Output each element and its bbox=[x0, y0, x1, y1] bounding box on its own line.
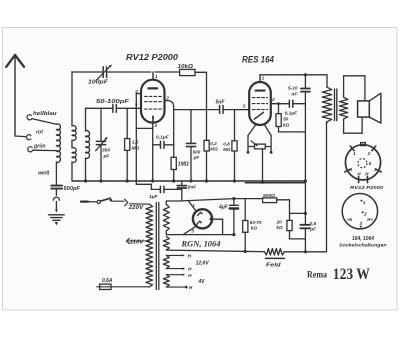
svg-text:kΩ: kΩ bbox=[276, 225, 283, 230]
svg-text:1,5: 1,5 bbox=[132, 140, 139, 146]
svg-text:weiß: weiß bbox=[38, 171, 50, 177]
svg-text:500pF: 500pF bbox=[64, 186, 81, 192]
svg-text:1: 1 bbox=[155, 74, 158, 79]
svg-text:5: 5 bbox=[369, 161, 372, 166]
svg-text:0,1μF: 0,1μF bbox=[285, 110, 299, 116]
svg-text:5-10: 5-10 bbox=[288, 85, 298, 91]
svg-text:3: 3 bbox=[360, 221, 363, 226]
svg-text:MΩ: MΩ bbox=[223, 147, 231, 152]
svg-text:500: 500 bbox=[193, 149, 201, 154]
svg-text:H≈: H≈ bbox=[367, 217, 373, 222]
svg-text:4V: 4V bbox=[197, 279, 205, 285]
svg-text:5nF: 5nF bbox=[188, 185, 198, 191]
svg-text:3: 3 bbox=[154, 123, 157, 128]
svg-text:3: 3 bbox=[374, 167, 377, 172]
svg-text:2: 2 bbox=[367, 151, 371, 156]
svg-text:4: 4 bbox=[348, 167, 352, 172]
svg-text:500Ω: 500Ω bbox=[263, 193, 275, 199]
svg-text:1MΩ: 1MΩ bbox=[178, 162, 189, 168]
svg-text:220V: 220V bbox=[127, 205, 144, 211]
svg-text:pF: pF bbox=[103, 154, 111, 160]
svg-text:50-70: 50-70 bbox=[250, 220, 262, 225]
svg-text:grün: grün bbox=[33, 144, 46, 150]
svg-text:2: 2 bbox=[363, 212, 367, 217]
svg-text:0,8: 0,8 bbox=[223, 141, 230, 146]
svg-text:12,6V: 12,6V bbox=[196, 260, 210, 266]
svg-text:4μF: 4μF bbox=[218, 204, 229, 210]
svg-text:1μF: 1μF bbox=[149, 194, 159, 200]
svg-text:50: 50 bbox=[283, 117, 289, 122]
svg-text:MΩ: MΩ bbox=[210, 147, 218, 152]
svg-text:pF: pF bbox=[193, 155, 200, 160]
svg-text:1: 1 bbox=[353, 151, 356, 156]
svg-text:2: 2 bbox=[165, 96, 169, 101]
svg-text:0,2: 0,2 bbox=[210, 141, 217, 146]
svg-text:1: 1 bbox=[262, 76, 265, 81]
svg-text:164, 1064: 164, 1064 bbox=[352, 236, 374, 242]
svg-text:rot: rot bbox=[36, 129, 43, 135]
svg-text:Feld: Feld bbox=[266, 262, 282, 268]
svg-text:hellblau: hellblau bbox=[33, 111, 57, 117]
svg-text:350: 350 bbox=[102, 148, 110, 154]
svg-text:Rema: Rema bbox=[307, 269, 327, 279]
svg-text:123 W: 123 W bbox=[333, 266, 370, 283]
svg-text:RV12 P2000: RV12 P2000 bbox=[350, 185, 383, 190]
svg-text:100pF: 100pF bbox=[88, 79, 109, 85]
svg-text:20: 20 bbox=[276, 220, 283, 225]
svg-text:kΩ: kΩ bbox=[283, 122, 290, 127]
svg-text:0,1μF: 0,1μF bbox=[156, 134, 170, 140]
svg-text:0,6A: 0,6A bbox=[102, 278, 113, 284]
svg-text:kΩ: kΩ bbox=[251, 225, 258, 230]
svg-text:50-100pF: 50-100pF bbox=[96, 99, 130, 105]
svg-text:≈N: ≈N bbox=[347, 217, 353, 222]
svg-text:1: 1 bbox=[192, 203, 195, 209]
svg-text:1: 1 bbox=[363, 200, 366, 205]
svg-text:5nF: 5nF bbox=[216, 99, 226, 105]
svg-text:3: 3 bbox=[243, 103, 246, 108]
svg-text:RGN, 1064: RGN, 1064 bbox=[181, 238, 222, 248]
svg-text:μF: μF bbox=[309, 226, 316, 231]
svg-text:3: 3 bbox=[191, 228, 194, 234]
svg-text:Sockelschaltungen: Sockelschaltungen bbox=[339, 243, 387, 248]
svg-text:0,5: 0,5 bbox=[310, 221, 317, 226]
svg-text:MΩ: MΩ bbox=[132, 146, 140, 152]
svg-text:2: 2 bbox=[271, 97, 275, 102]
svg-text:10kΩ: 10kΩ bbox=[178, 64, 194, 70]
svg-text:RV12 P2000: RV12 P2000 bbox=[126, 52, 178, 62]
svg-text:RES 164: RES 164 bbox=[242, 54, 274, 64]
